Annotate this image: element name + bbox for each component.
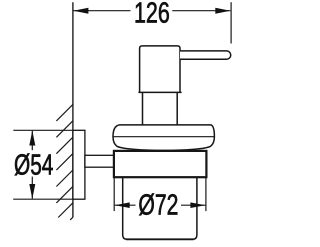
- dimension Ø72: left arrowhead: [115, 202, 130, 208]
- dimension 126: dimension line: [73, 10, 130, 12]
- pump spout: [180, 51, 231, 59]
- glass beaker: [123, 177, 197, 239]
- dimension Ø54: top extension line: [13, 129, 73, 131]
- dimension Ø54: down arrowhead: [29, 184, 35, 199]
- holder collar ring: [114, 151, 206, 177]
- pump flange line: [138, 91, 181, 93]
- holder arm: [85, 155, 114, 167]
- wall hatching: [56, 104, 73, 219]
- dimension Ø72: right arrowhead: [190, 202, 205, 208]
- dimension Ø72: dimension line: [115, 204, 136, 206]
- dimension 126: right arrowhead: [215, 8, 230, 14]
- dimension Ø54: up arrowhead: [29, 131, 35, 146]
- dispenser shoulder disc: [113, 125, 214, 151]
- wall rosette (mount plate, side view): [73, 130, 85, 199]
- svg-text:Ø54: Ø54: [14, 150, 53, 182]
- svg-text:Ø72: Ø72: [138, 190, 178, 222]
- dimension Ø54: dimension line: [31, 131, 33, 150]
- dimension Ø54: bottom extension line: [13, 198, 73, 200]
- pump neck: [143, 92, 178, 124]
- dimension 126: left arrowhead: [73, 8, 88, 14]
- dimension 126: right extension line: [230, 2, 232, 43]
- dimension Ø72: left extension line: [113, 177, 115, 211]
- svg-text:126: 126: [134, 0, 170, 30]
- glass bottom edge: [126, 238, 194, 240]
- dimension Ø72: right extension line: [205, 177, 207, 211]
- pump head: [140, 46, 180, 93]
- shoulder seam line: [113, 136, 214, 138]
- wall surface line: [72, 2, 74, 217]
